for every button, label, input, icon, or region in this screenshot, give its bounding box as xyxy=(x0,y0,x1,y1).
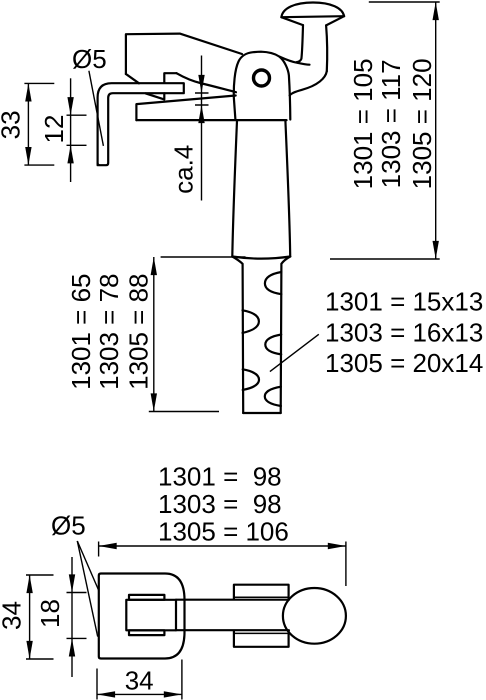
pivot ring outer xyxy=(253,69,270,86)
arrow 34 bottom right xyxy=(164,691,182,697)
leader diameter 5 top xyxy=(89,71,104,146)
svg-text:1301 = 105: 1301 = 105 xyxy=(348,58,378,189)
shaft scallop R3 xyxy=(265,387,281,406)
svg-text:33: 33 xyxy=(0,110,26,139)
dimension 65/78/88 line xyxy=(149,257,246,412)
arrow 65 bottom xyxy=(151,393,157,411)
svg-text:1305 = 120: 1305 = 120 xyxy=(407,58,437,189)
knob dome xyxy=(281,3,344,26)
svg-text:1305 = 88: 1305 = 88 xyxy=(123,274,153,390)
arrow 65 top xyxy=(151,257,157,275)
leader diameter 5 bottom b xyxy=(77,541,97,637)
svg-text:Ø5: Ø5 xyxy=(72,44,107,74)
svg-text:1305 = 20x14: 1305 = 20x14 xyxy=(325,348,483,378)
svg-text:18: 18 xyxy=(35,599,65,628)
arrow 12 bottom (outside) xyxy=(67,145,73,163)
svg-text:12: 12 xyxy=(39,115,69,144)
wing lower xyxy=(234,631,289,647)
arrow 34 bottom left xyxy=(97,691,115,697)
svg-text:1303 = 98: 1303 = 98 xyxy=(158,489,282,519)
svg-text:1301 = 98: 1301 = 98 xyxy=(158,462,282,492)
arm top edge xyxy=(176,599,289,601)
latch body top view xyxy=(99,574,185,659)
svg-text:34: 34 xyxy=(125,666,154,696)
arrow 105 bottom xyxy=(433,241,439,259)
wing upper xyxy=(234,585,289,600)
mounting plate xyxy=(136,96,286,121)
arrow 12 top (outside) xyxy=(67,97,73,115)
arrow 106 right xyxy=(328,543,346,549)
svg-text:1303 = 117: 1303 = 117 xyxy=(376,59,406,188)
lever blade tip wedge xyxy=(146,93,165,99)
svg-text:1301 = 15x13: 1301 = 15x13 xyxy=(325,287,483,317)
jaw tab upper xyxy=(129,595,164,600)
arm bottom edge xyxy=(176,629,289,631)
svg-text:1305 = 106: 1305 = 106 xyxy=(158,517,289,547)
arrow 34 left bottom xyxy=(26,641,32,659)
arrow ca.4 top (outside) xyxy=(198,75,204,93)
hook rod xyxy=(98,83,184,165)
dimension 98/106 line xyxy=(99,542,346,587)
leader diameter 5 bottom a xyxy=(77,541,98,590)
dimension 12 line xyxy=(67,78,87,182)
arrow 33 bottom xyxy=(25,147,31,165)
dimension 33 line xyxy=(24,83,54,165)
arrow ca.4 bottom (outside) xyxy=(198,105,204,123)
lever arm fillet xyxy=(280,57,310,65)
svg-text:1303 = 78: 1303 = 78 xyxy=(94,274,124,390)
jaw box xyxy=(126,600,176,631)
dimension ca.4 line xyxy=(195,56,209,201)
lever blade xyxy=(126,34,242,93)
arrow 18 bottom (outside) xyxy=(69,638,75,656)
shaft scallop L1 xyxy=(243,310,259,333)
shaft scallop R2 xyxy=(265,335,281,355)
arrow 33 top xyxy=(25,83,31,101)
dimension 34 left line xyxy=(26,575,54,659)
svg-text:1303 = 16x13: 1303 = 16x13 xyxy=(325,317,483,347)
arrow 105 top xyxy=(433,2,439,20)
svg-text:1301 = 65: 1301 = 65 xyxy=(66,274,96,390)
pivot ring inner xyxy=(254,71,268,85)
shaft scallop R1 xyxy=(265,272,281,294)
grip shaft xyxy=(232,257,290,414)
shaft scallop L2 xyxy=(243,369,259,390)
knob top view xyxy=(283,588,346,644)
dimension 105/117/120 line xyxy=(330,2,440,259)
jaw tab lower xyxy=(129,630,164,635)
pivot head xyxy=(234,52,291,120)
svg-text:Ø5: Ø5 xyxy=(51,511,86,541)
svg-text:34: 34 xyxy=(0,601,26,630)
knob stem xyxy=(297,25,327,71)
dimension 18 line xyxy=(67,557,87,677)
lever arm outer sweep xyxy=(290,71,327,95)
arrow 18 top (outside) xyxy=(69,574,75,592)
dimension 34 bottom line xyxy=(97,660,182,700)
leader 15x13 sizes xyxy=(270,334,319,371)
svg-text:ca.4: ca.4 xyxy=(169,145,199,194)
body cone xyxy=(232,121,290,259)
arrow 34 left top xyxy=(26,575,32,593)
arrow 106 left xyxy=(99,543,117,549)
